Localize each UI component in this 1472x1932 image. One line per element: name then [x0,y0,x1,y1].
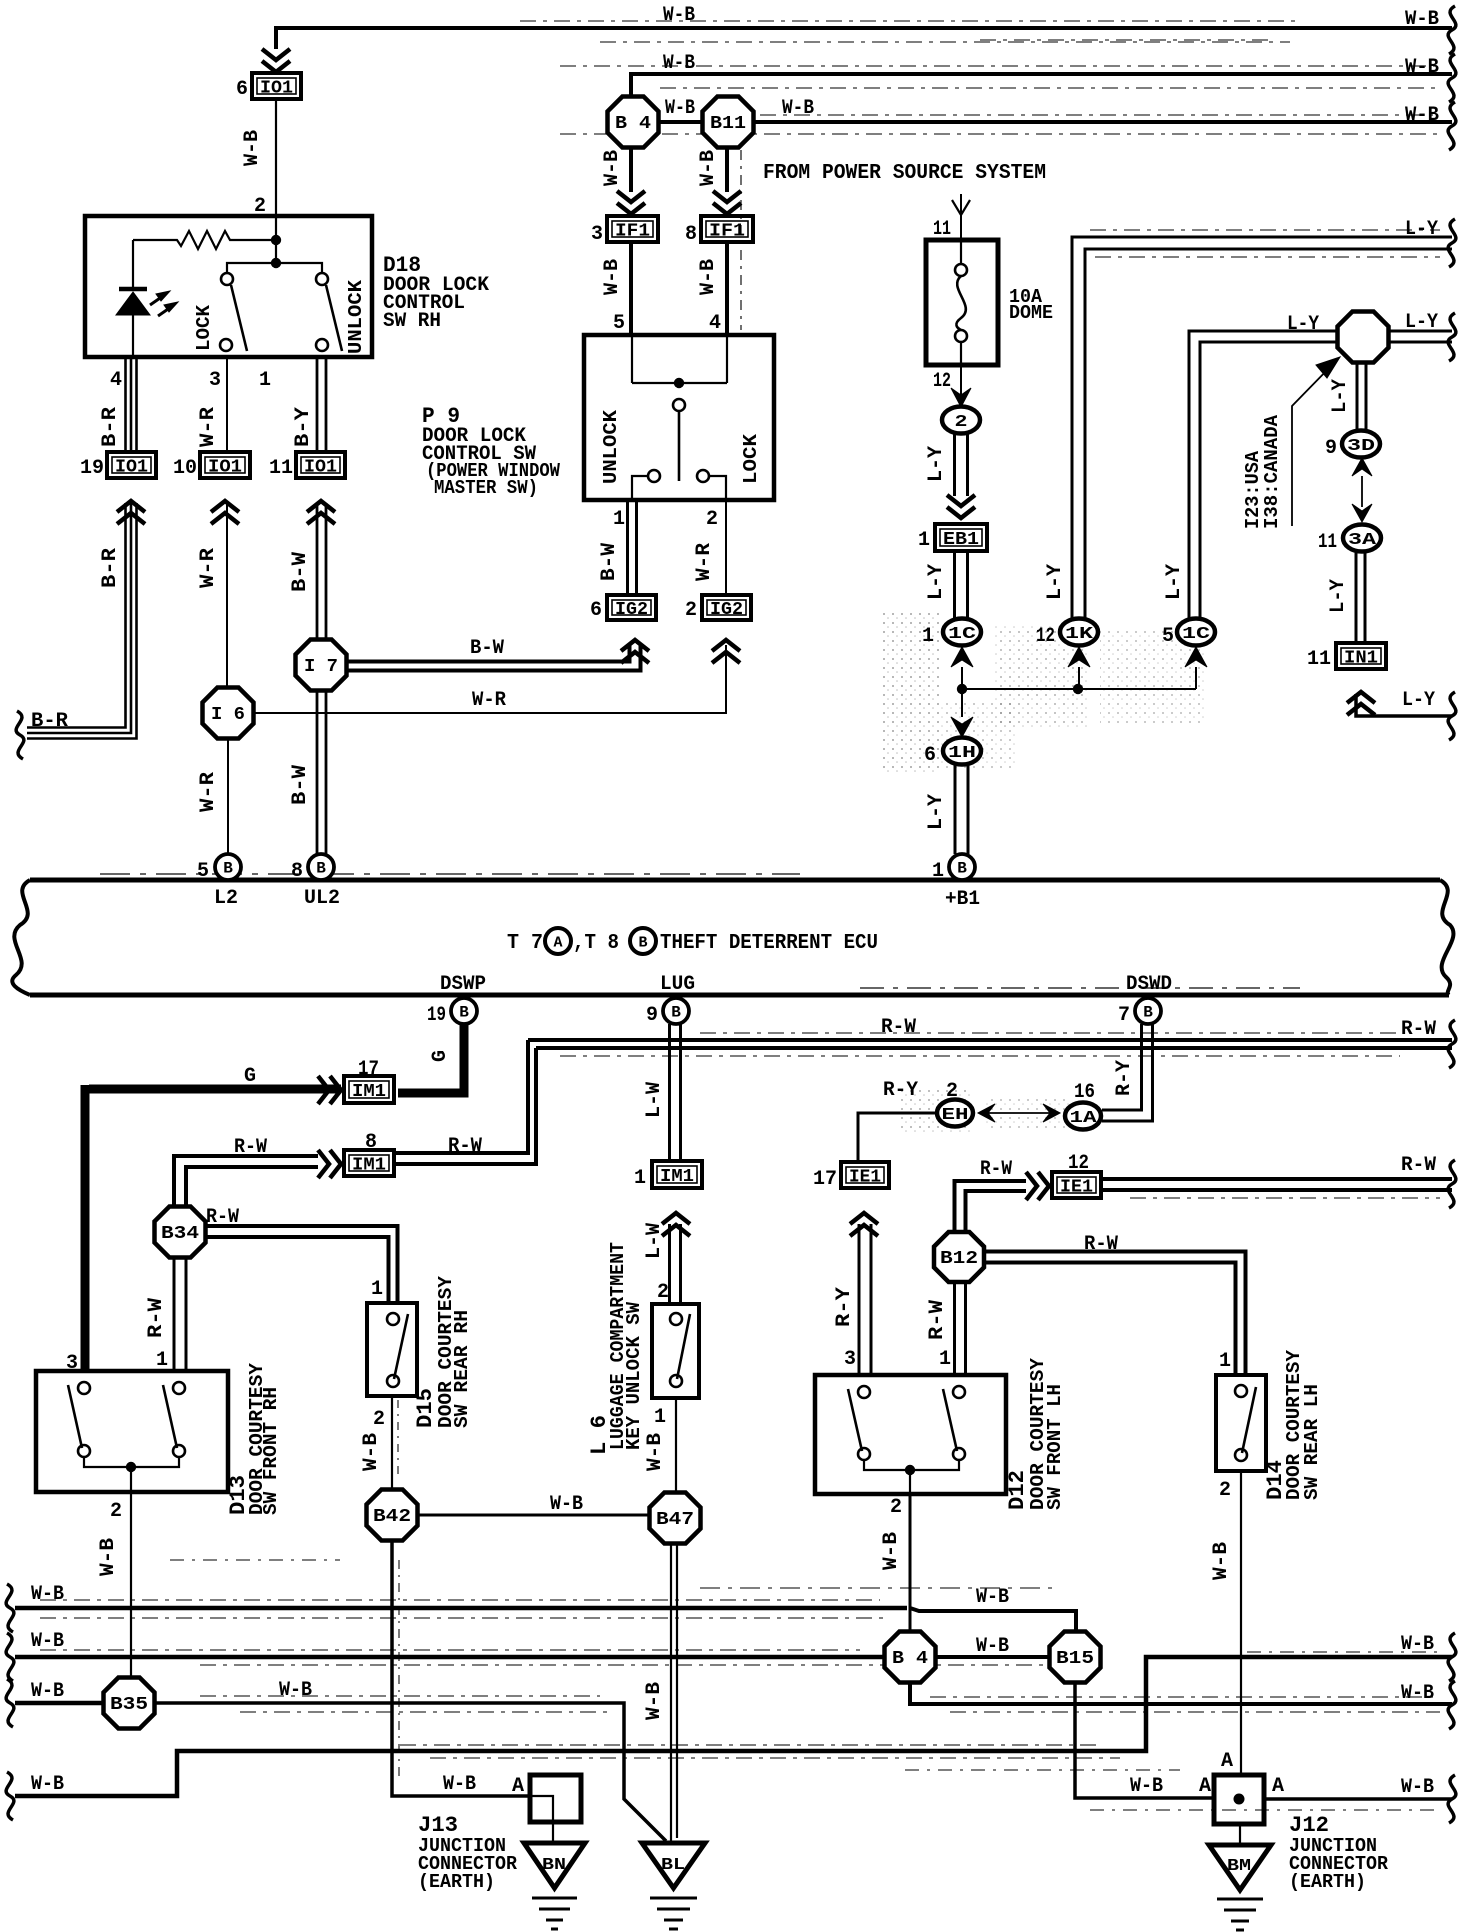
svg-text:SW FRONT RH: SW FRONT RH [260,1387,282,1515]
connector oval 1C pin 5 [1162,619,1215,649]
wire L-Y from right edge into IN1 [1356,694,1452,716]
svg-text:IO1: IO1 [304,458,337,478]
wire W-B from B4 bottom to right edge [910,1682,1452,1712]
label R-W right end with cut [1401,1018,1456,1068]
svg-text:L-Y: L-Y [1405,311,1438,334]
svg-text:G: G [244,1065,256,1088]
wire W-B from B42 down to J13 [392,1541,530,1796]
svg-text:R-W: R-W [145,1298,168,1338]
svg-text:6: 6 [236,78,248,101]
wire from fuse to connector oval 2 [951,365,971,407]
svg-text:1A: 1A [1070,1109,1098,1128]
connector 8 IF1 [685,216,753,246]
wire L-Y from octagon right to edge [1389,331,1452,342]
label W-B rail2 left with cut [6,1630,64,1681]
svg-text:W-B: W-B [31,1583,64,1606]
svg-text:W-R: W-R [197,407,220,447]
junction B 4 top [608,97,659,148]
svg-text:W-B: W-B [697,259,720,295]
svg-text:12: 12 [1068,1152,1089,1175]
ECU pin 19 circle DSWP [427,998,477,1027]
L6 switch [670,1313,690,1387]
connector oval 1C pin 1 [922,619,981,649]
door lock control switch P9 box [584,335,774,500]
wire R-Y from DSWD 7B down to 1A [1102,1024,1153,1121]
svg-text:FROM POWER SOURCE SYSTEM: FROM POWER SOURCE SYSTEM [763,162,1046,185]
svg-text:G: G [429,1050,452,1062]
svg-text:W-B: W-B [663,52,695,75]
ground BL triangle [642,1843,705,1888]
wire L-Y from 1C junction down to 1H [951,689,973,737]
arrow up into 3D [1352,458,1372,476]
svg-text:1H: 1H [948,744,976,763]
wire G from DSWP 19B down and left to 17 IM1 [85,1024,464,1371]
wire W-B ground rail 2 left part [15,1650,1060,1665]
D13 left switch [68,1382,90,1457]
label W-B right of J12 with cut [1401,1775,1456,1823]
svg-text:3: 3 [844,1348,856,1371]
label D15 DOOR COURTESY SW REAR RH [413,1275,473,1428]
wire L-Y from 1H to ECU pin 1 [955,765,968,854]
svg-text:W-B: W-B [697,150,720,186]
wire R-W from 8 IM1 up to DSWD R-W rail [396,1040,536,1164]
junction connector J12 earth [1214,1775,1264,1824]
svg-text:UL2: UL2 [304,887,340,910]
door courtesy switch D15 box [367,1303,417,1396]
svg-text:W-B: W-B [976,1635,1009,1658]
svg-text:I 6: I 6 [211,705,245,725]
wire W-B from B47 down to ground BL [671,1544,677,1843]
svg-text:2: 2 [890,1496,902,1519]
connector 1 EB1 [918,524,987,552]
wire between 3D and 3A [1361,476,1363,507]
svg-text:2: 2 [110,1500,122,1523]
svg-text:R-Y: R-Y [1113,1060,1136,1096]
svg-text:W-R: W-R [197,548,220,588]
wire B-W from I7 right to 6 IG2 [347,640,649,671]
label W-B B4 rail right end with cut [1401,1681,1456,1729]
wire W-B from D13 pin 2 to B35 [130,1492,132,1679]
svg-text:L-Y: L-Y [1044,564,1067,600]
wire R-Y from EH to 17 IE1 [858,1113,937,1162]
resistor inside D18 [133,231,276,249]
svg-text:L-Y: L-Y [925,446,948,482]
arrow into connector 6 IO1 [262,49,290,72]
junction dot below 1K [1073,684,1083,694]
svg-text:1: 1 [156,1349,168,1372]
label D13 DOOR COURTESY SW FRONT RH [226,1362,282,1515]
label W-B second wire right end with cut [1405,54,1456,102]
junction B35 [104,1678,155,1729]
wire R-W from B12 up to 12 IE1 [955,1181,1027,1234]
connector 10 IO1 [173,452,250,524]
svg-text:W-B: W-B [279,1679,312,1702]
wire W-B from 8 IF1 to P9 pin 4 [725,243,729,335]
svg-text:W-B: W-B [31,1630,64,1653]
svg-text:8: 8 [365,1131,377,1154]
svg-text:W-B: W-B [1405,8,1439,31]
connector oval 3D pin 9 [1325,431,1380,461]
svg-text:L-Y: L-Y [1329,379,1352,413]
connector 6 IG2 [590,595,656,622]
svg-text:A: A [553,935,562,952]
svg-text:6: 6 [590,599,602,622]
label D18 DOOR LOCK CONTROL SW RH [383,253,489,333]
ground symbol below BM [1217,1899,1263,1930]
junction B34 [155,1207,206,1258]
svg-text:W-B: W-B [1405,104,1439,127]
svg-text:3: 3 [591,223,603,246]
svg-text:UNLOCK: UNLOCK [345,279,367,354]
svg-text:W-B: W-B [601,150,624,186]
svg-text:IE1: IE1 [849,1168,881,1188]
bidirectional arrow between EH and 1A [978,1104,1060,1122]
svg-text:B11: B11 [710,114,746,134]
svg-text:IG2: IG2 [710,600,743,620]
svg-text:1: 1 [654,1406,666,1429]
connector oval EH pin 2 [937,1080,973,1127]
svg-text:10: 10 [173,457,197,480]
svg-text:EH: EH [942,1106,969,1125]
svg-text:L-Y: L-Y [1405,218,1438,241]
label J13 JUNCTION CONNECTOR EARTH [418,1813,518,1893]
svg-text:R-W: R-W [980,1158,1012,1181]
svg-text:1: 1 [634,1167,646,1190]
junction connector J13 earth [530,1775,581,1843]
stipple noise around junction ovals [882,612,940,772]
svg-text:R-W: R-W [448,1135,482,1158]
svg-text:W-B: W-B [97,1538,120,1576]
svg-text:19: 19 [80,457,104,480]
svg-text:B-R: B-R [31,710,68,733]
junction B11 top [703,97,754,148]
wire W-B ground rail 3 through B35 [15,1696,666,1841]
wire from power source into fuse pin 11 [952,194,970,240]
wire L-Y from 3A to 11 IN1 [1356,552,1365,643]
svg-text:KEY UNLOCK SW: KEY UNLOCK SW [623,1301,645,1450]
wire L-Y from octagon down to second 1C [1189,331,1338,618]
svg-text:1: 1 [918,529,930,552]
svg-text:IN1: IN1 [1344,649,1378,669]
connector oval 2 [942,407,980,434]
label D12 DOOR COURTESY SW FRONT LH [1005,1357,1066,1510]
svg-text:SW REAR RH: SW REAR RH [451,1310,473,1428]
wire W-R P9 pin2 to 2 IG2 [725,500,727,595]
wire R-W long horizontal DSWD [528,1033,1452,1056]
wire W-R from I6 to ECU pin 5 [227,739,229,854]
svg-text:W-B: W-B [1405,56,1439,79]
svg-text:LOCK: LOCK [740,433,762,484]
svg-text:5: 5 [613,312,625,335]
svg-text:LOCK: LOCK [193,304,215,351]
svg-text:B12: B12 [940,1249,978,1269]
svg-text:IM1: IM1 [352,1082,386,1102]
connector oval 1K pin 12 [1036,619,1098,649]
UNLOCK switch in D18 [316,273,342,351]
label W-B rail1 left with cut [6,1583,64,1632]
svg-text:L-W: L-W [643,1082,666,1118]
svg-text:5: 5 [1162,625,1174,648]
svg-text:W-B: W-B [663,4,695,27]
junction B 4 bottom [885,1632,936,1683]
D15 switch [387,1313,408,1387]
svg-text:W-B: W-B [241,130,264,166]
junction B15 [1050,1632,1101,1683]
svg-text:6: 6 [924,744,936,767]
label W-B rail4 right end with cut [1401,1633,1456,1681]
svg-text:BL: BL [661,1856,685,1875]
connector 1 IM1 [634,1161,702,1236]
fuse 10A DOME [926,240,998,365]
wire W-R down to junction I6 [226,503,228,687]
svg-text:B-W: B-W [289,765,312,805]
ECU pin 1 circle +B1 [932,854,975,883]
svg-text:17: 17 [813,1168,837,1191]
theft deterrent ECU band [12,874,1453,995]
svg-text:EB1: EB1 [943,530,979,550]
wire W-B second horizontal into B4 [560,66,1452,134]
D12 right switch [943,1386,965,1460]
svg-text:L-Y: L-Y [1327,579,1350,613]
connector oval 3A pin 11 [1318,525,1381,555]
ground BN triangle [524,1843,585,1888]
svg-text:B: B [671,1004,681,1022]
svg-text:1: 1 [939,1348,951,1371]
D12 left switch [848,1386,870,1460]
svg-text:+B1: +B1 [945,888,980,911]
connector oval 1H pin 6 [924,738,981,768]
svg-text:1K: 1K [1065,625,1094,644]
connector oval 1A pin 16 [1065,1081,1101,1130]
connector 19 IO1 [80,452,156,524]
svg-text:W-B: W-B [1130,1775,1163,1798]
D13 right switch [163,1382,185,1457]
svg-text:W-B: W-B [360,1433,383,1471]
callout arrow I23 USA I38 CANADA to octagon [1292,357,1340,526]
wire R-Y from 17 IE1 down to D12 pin 3 [859,1224,871,1375]
svg-text:1: 1 [922,625,934,648]
label R-W right end with cut [1401,1154,1456,1208]
door courtesy switch D14 box [1216,1375,1266,1471]
scan artifact dashes bottom area [170,1560,1440,1770]
wire W-B third horizontal from B11 to right edge [754,120,1452,124]
svg-text:BM: BM [1227,1857,1251,1876]
arrow into 1C [951,647,973,689]
wire L-W from 1 IM1 to luggage switch L6 [670,1224,681,1304]
svg-text:T 7: T 7 [507,932,543,955]
svg-text:8: 8 [685,223,697,246]
connector 17 IE1 [813,1162,889,1236]
label L-Y top right with cut [1405,218,1456,267]
junction I 6 [203,688,254,739]
svg-text:2: 2 [657,1281,669,1304]
svg-text:3D: 3D [1347,437,1375,456]
svg-text:12: 12 [933,370,951,393]
svg-text:A: A [1199,1775,1211,1798]
label W-B top wire right end with cut [1405,6,1456,54]
svg-text:MASTER SW): MASTER SW) [434,477,538,499]
svg-text:1: 1 [613,508,625,531]
wire L-Y from octagon down to 3D [1357,364,1366,431]
svg-text:8: 8 [291,860,303,883]
arrow into second 1C [1185,647,1207,689]
svg-text:16: 16 [1074,1081,1095,1104]
svg-text:IF1: IF1 [615,222,650,242]
label T7 A T8 B THEFT DETERRENT ECU [507,928,878,955]
wire R-W from B34 right to D15 pin 1 [205,1226,398,1303]
svg-text:1: 1 [932,860,944,883]
wire L-Y loop down to oval 1K [1072,230,1452,618]
svg-text:1: 1 [259,369,271,392]
wire W-B between B4 and B15 [936,1655,1050,1659]
D14 switch [1235,1385,1256,1461]
svg-text:2: 2 [685,599,697,622]
label W-B rail3 left with cut [6,1679,64,1727]
svg-text:L-Y: L-Y [1163,564,1186,600]
arrow down into 3A [1352,504,1372,522]
svg-text:R-W: R-W [206,1206,239,1229]
svg-text:W-B: W-B [550,1493,583,1516]
svg-text:9: 9 [1325,437,1337,460]
svg-text:2: 2 [373,1408,385,1431]
svg-text:B-R: B-R [99,548,122,588]
D13 common wire [84,1457,179,1492]
svg-text:L-Y: L-Y [925,794,948,830]
svg-text:W-B: W-B [1401,1682,1434,1705]
svg-text:3: 3 [209,369,221,392]
svg-text:B-W: B-W [598,543,621,581]
svg-text:W-B: W-B [601,259,624,295]
arrow into 17 IM1 [318,1076,341,1104]
svg-text:W-R: W-R [472,689,506,712]
svg-text:BN: BN [542,1856,566,1875]
connector 17 IM1 [344,1058,394,1103]
svg-text:SW REAR LH: SW REAR LH [1301,1384,1323,1500]
arrow into 12 IE1 [1026,1172,1049,1200]
svg-text:(EARTH): (EARTH) [1289,1871,1366,1893]
wire L-W from LUG 9B to 1 IM1 [670,1024,681,1161]
svg-text:W-B: W-B [644,1433,667,1471]
door lock control switch D18 box [85,216,372,357]
svg-text:B: B [459,1004,469,1022]
wire W-B from B11 down to 8 IF1 [713,148,741,330]
connector 3 IF1 [591,216,658,246]
svg-text:9: 9 [646,1004,658,1027]
wire R-W from B34 to 8 IM1 [174,1156,318,1208]
svg-text:L-Y: L-Y [1287,313,1319,336]
junction I 7 [296,640,347,691]
svg-text:A: A [512,1775,524,1798]
ground symbol below BL [650,1898,697,1929]
svg-text:R-W: R-W [881,1016,916,1039]
svg-text:2: 2 [706,508,718,531]
svg-text:12: 12 [1036,625,1055,648]
wire from J12 down to ground BM [1239,1824,1241,1845]
label B-R at left cut [16,710,68,759]
connector 2 IG2 [685,595,751,622]
svg-text:19: 19 [427,1004,446,1027]
svg-text:B 4: B 4 [615,114,651,134]
svg-text:5: 5 [197,860,209,883]
svg-text:I38:CANADA: I38:CANADA [1261,414,1283,529]
junction B42 [367,1490,418,1541]
label L-Y right with cut [1402,689,1456,740]
junction B47 [650,1493,701,1544]
svg-text:B: B [223,860,233,878]
svg-text:W-B: W-B [880,1532,903,1570]
svg-text:DSWP: DSWP [440,973,486,996]
svg-text:IO1: IO1 [115,458,148,478]
svg-text:B34: B34 [161,1224,199,1244]
wire L-Y from EB1 to oval 1C [955,551,968,618]
svg-text:2: 2 [1219,1479,1231,1502]
arrow into 1K [1068,647,1090,689]
svg-text:11: 11 [1318,531,1337,554]
wire W-B from D15 pin 2 to B42 [392,1396,398,1490]
svg-text:W-B: W-B [443,1773,476,1796]
svg-text:B47: B47 [656,1510,694,1530]
svg-text:17: 17 [358,1058,379,1081]
svg-text:SW RH: SW RH [383,310,441,333]
wire W-B top horizontal into 6 IO1 [276,21,1452,49]
svg-text:SW FRONT LH: SW FRONT LH [1044,1384,1066,1510]
svg-text:DSWD: DSWD [1126,973,1172,996]
wire R-W from B12 down to D12 pin 1 [955,1282,966,1375]
svg-text:1: 1 [371,1278,383,1301]
svg-text:B-W: B-W [289,552,312,592]
wire B-R bundle to left edge cut [27,503,137,739]
wire joining 1C 1K 1C ovals [962,688,1196,690]
svg-text:2: 2 [955,413,968,432]
svg-text:IG2: IG2 [615,600,648,620]
wire W-B between B4 and B11 [659,120,702,124]
door courtesy switch D13 box [36,1371,228,1492]
LED indicator in D18 [116,240,178,357]
wire R-W from 12 IE1 to right edge [1101,1179,1452,1198]
svg-text:R-Y: R-Y [833,1287,856,1327]
svg-text:W-R: W-R [197,772,220,812]
svg-text:W-B: W-B [665,97,695,120]
wire B-W P9 pin1 to 6 IG2 [628,500,637,595]
svg-text:11: 11 [269,457,293,480]
svg-text:R-W: R-W [926,1300,949,1340]
svg-text:DOME: DOME [1009,302,1053,324]
wire W-B ground rail 4 with step [15,1657,1452,1796]
svg-text:A: A [1272,1775,1284,1798]
svg-text:1C: 1C [948,625,976,644]
svg-text:7: 7 [1118,1004,1130,1027]
label W-B rail4 left with cut [6,1772,64,1820]
svg-text:B-W: B-W [470,637,504,660]
LOCK switch in D18 [220,273,247,351]
wire B-W from I7 to ECU pin 8 [317,691,326,854]
label L 6 LUGGAGE COMPARTMENT KEY UNLOCK SW [587,1242,645,1455]
ECU pin 5 circle L2 [197,854,241,883]
node dots on D18 pin2 wire [271,216,281,268]
svg-text:B-Y: B-Y [292,407,315,447]
svg-text:4: 4 [110,369,122,392]
svg-text:R-W: R-W [1401,1154,1436,1177]
wire W-B from J12 right to edge [1090,1799,1452,1810]
connector 11 IN1 [1307,643,1386,715]
svg-text:3A: 3A [1348,531,1377,550]
svg-text:2: 2 [946,1080,958,1103]
svg-text:A: A [1221,1750,1233,1773]
svg-text:W-B: W-B [1401,1776,1434,1799]
wire B-W down to junction I7 [317,503,326,640]
wire B-Y D18 pin1 to 11 IO1 [317,357,326,452]
wire W-B from D12 pin 2 to B 4 [909,1494,912,1632]
